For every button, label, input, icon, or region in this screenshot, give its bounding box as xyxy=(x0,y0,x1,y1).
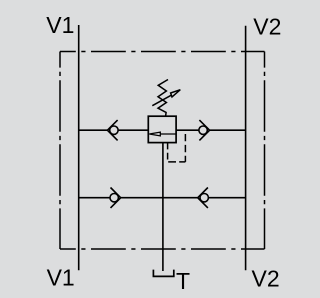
check valve CV2 (upper right, seat on right) xyxy=(199,120,210,140)
svg-text:V2: V2 xyxy=(253,14,281,40)
wire: lower line CV4 to V2 xyxy=(208,197,245,199)
check valve CV3 (lower left, seat on right) xyxy=(110,188,121,208)
svg-text:T: T xyxy=(176,268,190,294)
check valve CV1 (upper left, seat on left) xyxy=(107,120,118,140)
wire: lower line CV3 to CV4 xyxy=(121,197,198,199)
wire: lower line V1 to CV3 xyxy=(79,197,110,199)
wire: upper line CV1 to relief valve xyxy=(118,129,148,131)
enclosure boundary (dash-dot subplate box) xyxy=(60,52,265,250)
relief valve RV1 body xyxy=(148,116,176,142)
check valve CV4 (lower right, seat on left) xyxy=(198,188,209,208)
adjustment arrow through spring xyxy=(152,90,180,106)
wire: upper line V1 to CV1 xyxy=(79,129,108,131)
wire: V2 port line (right vertical) xyxy=(245,26,247,270)
pilot line (dashed) from relief valve bottom to outlet xyxy=(168,130,186,162)
wire: drain line from relief valve to T xyxy=(162,143,164,271)
spring (adjustable) above relief valve xyxy=(158,80,168,117)
svg-text:V1: V1 xyxy=(46,12,74,38)
svg-text:V2: V2 xyxy=(252,266,280,292)
T port plug bracket xyxy=(153,270,173,277)
relief valve internal flow arrow xyxy=(149,132,176,136)
wire: V1 port line (left vertical) xyxy=(78,25,80,270)
wire: upper line CV2 to V2 xyxy=(210,129,246,131)
svg-text:V1: V1 xyxy=(47,264,75,290)
wire: upper line relief valve to CV2 xyxy=(176,129,199,131)
